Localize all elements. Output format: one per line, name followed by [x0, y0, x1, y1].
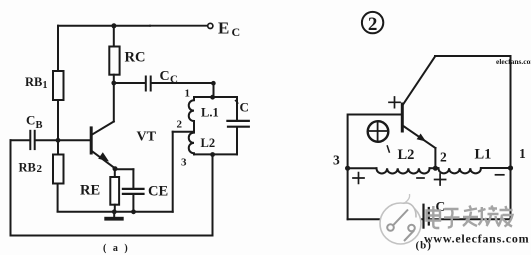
svg-text:RE: RE — [80, 183, 100, 199]
svg-text:2: 2 — [37, 163, 43, 175]
svg-text:RB: RB — [25, 75, 42, 89]
svg-text:VT: VT — [137, 130, 157, 145]
svg-text:B: B — [36, 120, 43, 131]
svg-text:1: 1 — [185, 88, 191, 100]
svg-text:www.elecfans.com: www.elecfans.com — [424, 232, 529, 246]
svg-text:C: C — [240, 100, 249, 115]
svg-text:RB: RB — [19, 161, 36, 175]
svg-text:L.1: L.1 — [201, 106, 219, 120]
svg-text:elecfans.com: elecfans.com — [496, 57, 531, 66]
svg-text:C: C — [232, 25, 241, 39]
svg-text:L1: L1 — [475, 147, 492, 163]
svg-text:2: 2 — [440, 150, 447, 165]
svg-text:CE: CE — [148, 184, 168, 200]
svg-text:C: C — [160, 69, 170, 84]
svg-text:2: 2 — [368, 14, 378, 35]
svg-text:C: C — [170, 74, 178, 86]
svg-text:3: 3 — [333, 153, 340, 168]
svg-text:RC: RC — [125, 50, 146, 66]
svg-text:C: C — [26, 113, 35, 128]
svg-text:1: 1 — [43, 80, 48, 91]
svg-text:3: 3 — [181, 157, 187, 169]
svg-text:2: 2 — [177, 119, 183, 131]
svg-text:( a ): ( a ) — [103, 243, 130, 254]
svg-text:E: E — [218, 19, 229, 38]
svg-text:L2: L2 — [398, 147, 415, 163]
svg-text:1: 1 — [519, 146, 526, 161]
svg-text:L2: L2 — [201, 136, 216, 150]
